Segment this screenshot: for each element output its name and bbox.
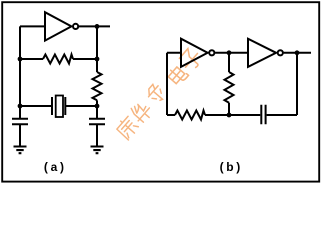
svg-text:(a): (a) xyxy=(44,160,67,174)
svg-text:(b): (b) xyxy=(220,160,243,174)
